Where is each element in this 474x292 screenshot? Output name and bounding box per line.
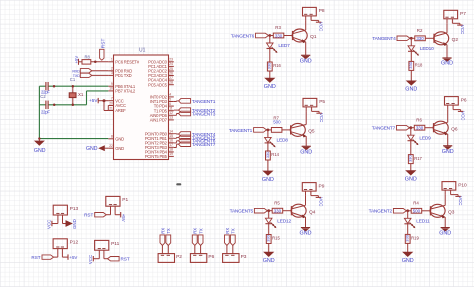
svg-text:GND: GND — [402, 258, 414, 264]
svg-text:21: 21 — [109, 106, 113, 110]
svg-text:330: 330 — [265, 151, 270, 158]
svg-text:19: 19 — [169, 152, 173, 156]
svg-text:GND: GND — [442, 149, 454, 155]
svg-text:GND: GND — [72, 219, 77, 229]
svg-text:7: 7 — [111, 97, 113, 101]
svg-text:+5V: +5V — [121, 214, 126, 222]
svg-text:LED12: LED12 — [277, 218, 291, 224]
svg-text:330: 330 — [266, 234, 271, 241]
svg-text:VCC: VCC — [88, 255, 93, 264]
svg-text:330: 330 — [408, 154, 413, 161]
svg-text:TANGENT1: TANGENT1 — [192, 99, 216, 105]
svg-text:27: 27 — [169, 76, 173, 80]
svg-text:P12: P12 — [70, 239, 79, 245]
svg-text:1: 1 — [111, 58, 113, 62]
svg-text:5: 5 — [169, 97, 171, 101]
svg-text:GND: GND — [439, 230, 451, 236]
svg-text:C2: C2 — [40, 94, 46, 99]
svg-text:28: 28 — [169, 81, 173, 85]
svg-text:TANGENT3: TANGENT3 — [192, 111, 216, 117]
svg-text:P7: P7 — [460, 11, 466, 17]
svg-text:R8: R8 — [85, 55, 91, 60]
svg-text:11: 11 — [169, 107, 173, 111]
svg-text:Q1: Q1 — [310, 34, 317, 40]
svg-text:RXD: RXD — [72, 69, 80, 73]
svg-text:GND: GND — [300, 230, 312, 236]
svg-text:U1: U1 — [139, 48, 146, 54]
svg-text:GND: GND — [300, 149, 312, 155]
svg-text:GND: GND — [115, 136, 124, 141]
svg-text:VCC: VCC — [461, 111, 466, 120]
svg-text:R14: R14 — [271, 152, 279, 157]
svg-text:LED9: LED9 — [419, 135, 431, 141]
svg-text:+5V: +5V — [89, 98, 98, 103]
svg-text:P10: P10 — [458, 182, 467, 188]
svg-text:GND: GND — [263, 258, 275, 264]
svg-text:22pF: 22pF — [41, 110, 50, 115]
svg-text:TX: TX — [199, 228, 204, 234]
svg-text:RX: RX — [160, 228, 165, 234]
svg-text:VCC: VCC — [47, 220, 52, 229]
svg-text:20: 20 — [109, 101, 113, 105]
svg-text:500: 500 — [273, 120, 281, 125]
svg-text:17: 17 — [169, 143, 173, 147]
svg-text:R17: R17 — [414, 156, 422, 161]
svg-text:4: 4 — [169, 93, 171, 97]
svg-text:GND: GND — [405, 177, 417, 183]
svg-text:330: 330 — [416, 126, 424, 131]
svg-text:GND: GND — [262, 177, 274, 183]
svg-text:AREF: AREF — [115, 108, 126, 113]
svg-text:330: 330 — [275, 33, 283, 38]
svg-text:GND: GND — [300, 58, 312, 64]
svg-text:PC5 ADC5: PC5 ADC5 — [148, 82, 168, 87]
svg-text:LED8: LED8 — [277, 138, 289, 144]
svg-text:RX: RX — [193, 228, 198, 234]
svg-text:LED10: LED10 — [420, 46, 434, 52]
svg-text:P6: P6 — [461, 97, 467, 103]
svg-text:AIN1 PD7: AIN1 PD7 — [150, 118, 168, 123]
svg-text:VCC: VCC — [460, 25, 465, 34]
svg-text:P8: P8 — [319, 8, 325, 14]
svg-text:TX: TX — [166, 228, 171, 234]
svg-text:24: 24 — [169, 62, 173, 66]
svg-text:R16: R16 — [273, 63, 281, 68]
svg-text:10: 10 — [109, 87, 113, 91]
svg-text:VCC: VCC — [458, 196, 463, 205]
svg-text:9: 9 — [111, 82, 113, 86]
svg-text:R6: R6 — [416, 117, 422, 122]
svg-text:R5: R5 — [274, 200, 280, 205]
svg-text:RX: RX — [225, 228, 230, 234]
svg-text:TANGENT4: TANGENT4 — [372, 36, 396, 42]
svg-text:330: 330 — [416, 36, 424, 41]
svg-text:TANGENT2: TANGENT2 — [369, 209, 393, 215]
svg-text:TANGENT6: TANGENT6 — [231, 33, 255, 39]
svg-text:PCINT5 PB5: PCINT5 PB5 — [145, 154, 168, 159]
svg-text:23: 23 — [169, 58, 173, 62]
svg-text:P5: P5 — [319, 99, 325, 105]
svg-text:22: 22 — [109, 144, 113, 148]
svg-text:R15: R15 — [272, 236, 280, 241]
svg-text:3: 3 — [111, 71, 113, 75]
svg-text:P2: P2 — [176, 254, 182, 260]
svg-text:P9: P9 — [319, 183, 325, 189]
svg-text:GND: GND — [264, 84, 276, 90]
svg-text:8: 8 — [111, 135, 113, 139]
svg-text:Q5: Q5 — [308, 129, 315, 135]
svg-text:330: 330 — [267, 62, 272, 69]
svg-text:Q4: Q4 — [309, 209, 316, 215]
svg-text:330: 330 — [274, 209, 282, 214]
svg-text:R2: R2 — [417, 28, 423, 33]
svg-text:VCC: VCC — [319, 113, 324, 122]
svg-text:VCC: VCC — [319, 197, 324, 206]
svg-text:+5V: +5V — [69, 255, 77, 260]
svg-text:PB7 XTAL2: PB7 XTAL2 — [115, 89, 136, 94]
svg-text:TANGENT5: TANGENT5 — [230, 209, 254, 215]
svg-text:Q6: Q6 — [451, 126, 458, 132]
svg-text:P6: P6 — [208, 254, 214, 260]
svg-text:RST: RST — [101, 39, 107, 49]
svg-text:26: 26 — [169, 71, 173, 75]
svg-text:500: 500 — [413, 209, 421, 214]
svg-text:LED7: LED7 — [278, 43, 290, 49]
svg-text:25: 25 — [169, 67, 173, 71]
svg-text:12: 12 — [169, 111, 173, 115]
svg-text:GND: GND — [34, 148, 46, 154]
svg-text:6: 6 — [169, 102, 171, 106]
svg-text:GND: GND — [115, 146, 124, 151]
svg-text:Q3: Q3 — [448, 209, 455, 215]
svg-text:LED11: LED11 — [416, 218, 430, 224]
svg-text:TANGENT1: TANGENT1 — [229, 128, 253, 134]
svg-text:P3: P3 — [241, 254, 247, 260]
svg-text:13: 13 — [169, 116, 173, 120]
svg-text:RST: RST — [84, 213, 93, 218]
svg-text:P11: P11 — [111, 241, 120, 247]
svg-text:15: 15 — [169, 134, 173, 138]
svg-text:TANGENT7: TANGENT7 — [372, 126, 396, 132]
svg-text:PD1 TXD: PD1 TXD — [115, 73, 131, 78]
svg-text:GND: GND — [405, 87, 417, 93]
svg-text:330: 330 — [408, 61, 413, 68]
svg-text:GND: GND — [441, 60, 453, 66]
svg-text:VCC: VCC — [319, 22, 324, 31]
svg-text:RST: RST — [121, 257, 130, 262]
svg-text:P13: P13 — [70, 206, 79, 212]
svg-text:TANGENT7: TANGENT7 — [192, 142, 216, 148]
svg-text:P1: P1 — [122, 197, 128, 203]
svg-text:14: 14 — [169, 130, 173, 134]
svg-text:TX: TX — [231, 228, 236, 234]
svg-text:16: 16 — [169, 139, 173, 143]
svg-text:PC6 RESET#: PC6 RESET# — [115, 59, 139, 64]
svg-text:R4: R4 — [413, 201, 419, 206]
svg-text:X1: X1 — [78, 92, 84, 97]
svg-text:RST: RST — [31, 255, 40, 260]
svg-text:330: 330 — [405, 234, 410, 241]
svg-text:R19: R19 — [411, 236, 419, 241]
svg-text:GND: GND — [86, 146, 98, 152]
svg-text:18: 18 — [169, 148, 173, 152]
svg-text:2: 2 — [111, 67, 113, 71]
svg-text:R18: R18 — [415, 63, 423, 68]
svg-text:R3: R3 — [275, 25, 281, 30]
svg-text:C1: C1 — [70, 77, 76, 82]
svg-text:Q2: Q2 — [452, 37, 459, 43]
